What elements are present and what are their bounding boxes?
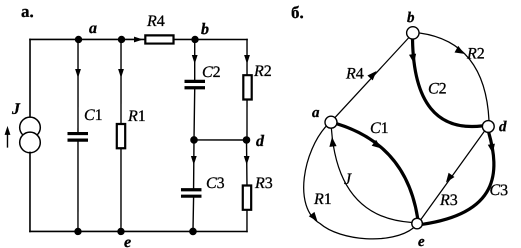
graph node b — [407, 27, 419, 39]
arrow of source J (up) — [5, 126, 11, 147]
graph edge C3 (d to e, thick curve right) — [422, 132, 495, 224]
label R2 — [253, 63, 272, 80]
wire R3 to bottom — [246, 210, 248, 232]
svg-text:R2: R2 — [466, 46, 485, 63]
svg-text:C1: C1 — [84, 107, 103, 124]
junction dot C1 bottom — [74, 228, 81, 235]
wire top from left corner to node b and right corner — [30, 38, 247, 40]
graph label d — [499, 119, 507, 135]
graph label C3 — [489, 182, 508, 199]
graph edge J (e to a, thin curve) — [329, 129, 412, 223]
label d (node d) — [256, 133, 265, 150]
graph node d — [482, 121, 494, 133]
graph label R4 — [345, 66, 364, 83]
wire d to R3 with current arrow down — [244, 140, 250, 186]
resistor R1 — [117, 124, 125, 148]
svg-text:d: d — [499, 119, 507, 135]
label R4 — [146, 13, 165, 30]
resistor R3 — [243, 185, 251, 209]
graph label R2 — [466, 46, 485, 63]
wire C3 lower — [192, 198, 195, 232]
svg-text:C2: C2 — [428, 81, 447, 98]
label а. (figure part label left) — [21, 2, 34, 21]
svg-text:C2: C2 — [202, 64, 221, 81]
node a junction dot — [75, 36, 82, 43]
label C2 — [202, 64, 221, 81]
graph label e — [418, 234, 425, 248]
svg-text:e: e — [124, 234, 131, 248]
svg-text:б.: б. — [291, 3, 304, 22]
graph label C2 — [428, 81, 447, 98]
svg-text:C3: C3 — [206, 175, 225, 192]
graph edge R1 (a to e, big left loop) — [304, 126, 414, 239]
svg-text:e: e — [418, 234, 425, 248]
svg-text:J: J — [344, 171, 352, 188]
graph edge C2 (b to d, thick curve left-down) — [409, 39, 482, 126]
wire C2 branch upper with current arrow down — [192, 39, 198, 79]
svg-text:R3: R3 — [254, 175, 273, 192]
label R3 — [254, 175, 273, 192]
wire left vertical lower (source to bottom) — [29, 152, 31, 231]
graph edge R4 (a to b, straight) — [335, 38, 408, 117]
svg-text:R1: R1 — [127, 108, 146, 125]
svg-text:R4: R4 — [146, 13, 165, 30]
svg-text:C3: C3 — [489, 182, 508, 199]
node b junction dot — [191, 36, 198, 43]
label C1 — [84, 107, 103, 124]
graph label R3 — [439, 192, 458, 209]
junction dot d left — [190, 136, 198, 144]
graph label R1 — [313, 191, 332, 208]
label b (node b) — [201, 21, 209, 38]
label e (node e) — [124, 234, 131, 248]
wire left vertical upper (to current source) — [29, 39, 31, 117]
svg-text:a: a — [89, 20, 97, 37]
wire right vertical top (b corner to R2) — [244, 39, 250, 75]
wire bottom from left corner to right corner — [30, 230, 247, 232]
graph node e — [412, 218, 423, 229]
svg-text:R1: R1 — [313, 191, 332, 208]
graph edge R3 (d to e, straight) — [421, 131, 485, 219]
wire C3 branch upper with current arrow down — [191, 140, 197, 188]
graph label a — [312, 105, 320, 121]
capacitor C1 — [67, 132, 88, 142]
graph node a — [325, 116, 337, 128]
wire C1 branch lower — [77, 142, 79, 232]
junction dot R1 top — [118, 36, 125, 43]
svg-text:d: d — [256, 133, 265, 150]
svg-text:R2: R2 — [253, 63, 272, 80]
wire R1 branch upper with current arrow down — [118, 39, 124, 124]
svg-text:R3: R3 — [439, 192, 458, 209]
current source J — [20, 117, 41, 153]
svg-text:a: a — [312, 105, 320, 121]
wire C2 to node d — [193, 89, 196, 140]
junction dot C3 bottom (node e) — [189, 228, 197, 236]
graph edge C1 (a to e, thick curve up-right) — [337, 124, 418, 218]
junction dot d right — [243, 136, 251, 144]
wire C1 branch upper with current arrow down — [75, 39, 81, 132]
graph label J — [344, 171, 352, 188]
svg-text:b: b — [201, 21, 209, 38]
capacitor C3 — [181, 188, 202, 198]
current arrow on top wire toward R4 — [134, 37, 143, 43]
label a (node a) — [89, 20, 97, 37]
svg-text:а.: а. — [21, 2, 34, 21]
resistor R4 — [145, 35, 173, 43]
svg-text:C1: C1 — [370, 120, 389, 137]
graph edge R2 (b to d, curve right-up) — [420, 33, 490, 121]
label J — [11, 101, 21, 118]
svg-text:R4: R4 — [345, 66, 364, 83]
junction dot R1 bottom — [117, 228, 124, 235]
svg-text:b: b — [407, 10, 415, 26]
svg-text:J: J — [11, 101, 21, 118]
capacitor C2 — [185, 80, 206, 90]
graph label C1 — [370, 120, 389, 137]
resistor R2 — [243, 75, 251, 99]
label R1 — [127, 108, 146, 125]
graph label b — [407, 10, 415, 26]
label C3 — [206, 175, 225, 192]
label б. (figure part label right) — [291, 3, 304, 22]
node d horizontal wire — [194, 139, 247, 141]
wire R2 to node d — [246, 99, 248, 140]
wire R1 branch lower — [120, 148, 122, 231]
